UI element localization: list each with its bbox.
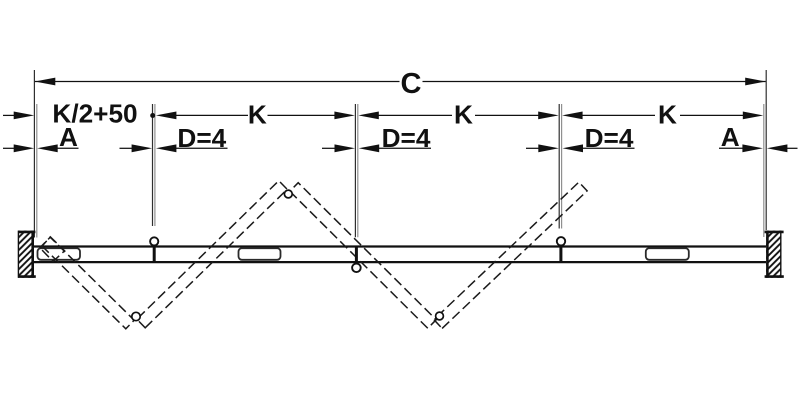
left wall (hatched) — [18, 231, 36, 278]
hinge circle peak 1 — [284, 190, 292, 198]
glider middle — [239, 248, 281, 260]
carrier pivot circle 2 (below track) — [352, 264, 361, 273]
dimension C line — [35, 81, 400, 83]
svg-text:K: K — [658, 100, 677, 130]
svg-text:A: A — [59, 122, 78, 152]
dimension C left arrow — [35, 78, 56, 86]
dimension K1 arrows and line — [156, 112, 177, 120]
carrier pivot bar 1 — [153, 245, 156, 263]
dimension K2 arrows and line — [358, 112, 379, 120]
track top rail — [34, 245, 766, 247]
hinge circle vertex 2 — [436, 312, 444, 320]
svg-text:A: A — [721, 122, 740, 152]
right wall (hatched) — [765, 231, 784, 278]
hinge circle vertex 1 — [132, 312, 140, 320]
dimension A left arrows — [3, 147, 15, 149]
carrier pivot circle 1 — [150, 237, 158, 245]
svg-text:K: K — [248, 100, 267, 130]
extension line K3 — [558, 104, 560, 229]
svg-text:C: C — [401, 68, 422, 100]
extension line right (C / wall) — [765, 70, 767, 230]
track bottom rail — [34, 261, 766, 263]
svg-text:D=4: D=4 — [382, 123, 431, 153]
dimension K/2+50 dot terminator — [150, 113, 155, 118]
dimension A right arrows — [719, 147, 743, 149]
extension line left (C / wall) — [33, 70, 35, 238]
glider right — [646, 248, 689, 260]
door panel 3 (peak 1 down to vertex 2) — [290, 183, 436, 329]
extension line K2 — [354, 104, 356, 237]
svg-text:D=4: D=4 — [177, 123, 226, 153]
extension line K1 — [152, 104, 154, 226]
folded door stub at wall — [40, 237, 64, 262]
door panel 2 (vertex 1 up to peak 1) — [137, 181, 287, 328]
glider left — [38, 248, 81, 260]
carrier pivot circle 3 — [557, 237, 565, 245]
dimension K3 arrows and line — [562, 112, 583, 120]
svg-text:K: K — [454, 100, 473, 130]
door panel 4 (vertex 2 up to free end) — [434, 182, 587, 328]
carrier pivot bar 3 — [559, 245, 562, 263]
dimension K/2+50 outside arrow — [3, 114, 15, 116]
dimension D=4 #2 arrows — [322, 147, 335, 149]
dimension C right arrow — [745, 78, 766, 86]
svg-text:D=4: D=4 — [585, 123, 634, 153]
door panel 1 (wall to fold vertex 1) — [42, 237, 134, 329]
carrier pivot bar 2 — [355, 246, 358, 262]
dimension D=4 #3 arrows — [526, 147, 539, 149]
dimension D=4 #1 arrows — [120, 147, 133, 149]
